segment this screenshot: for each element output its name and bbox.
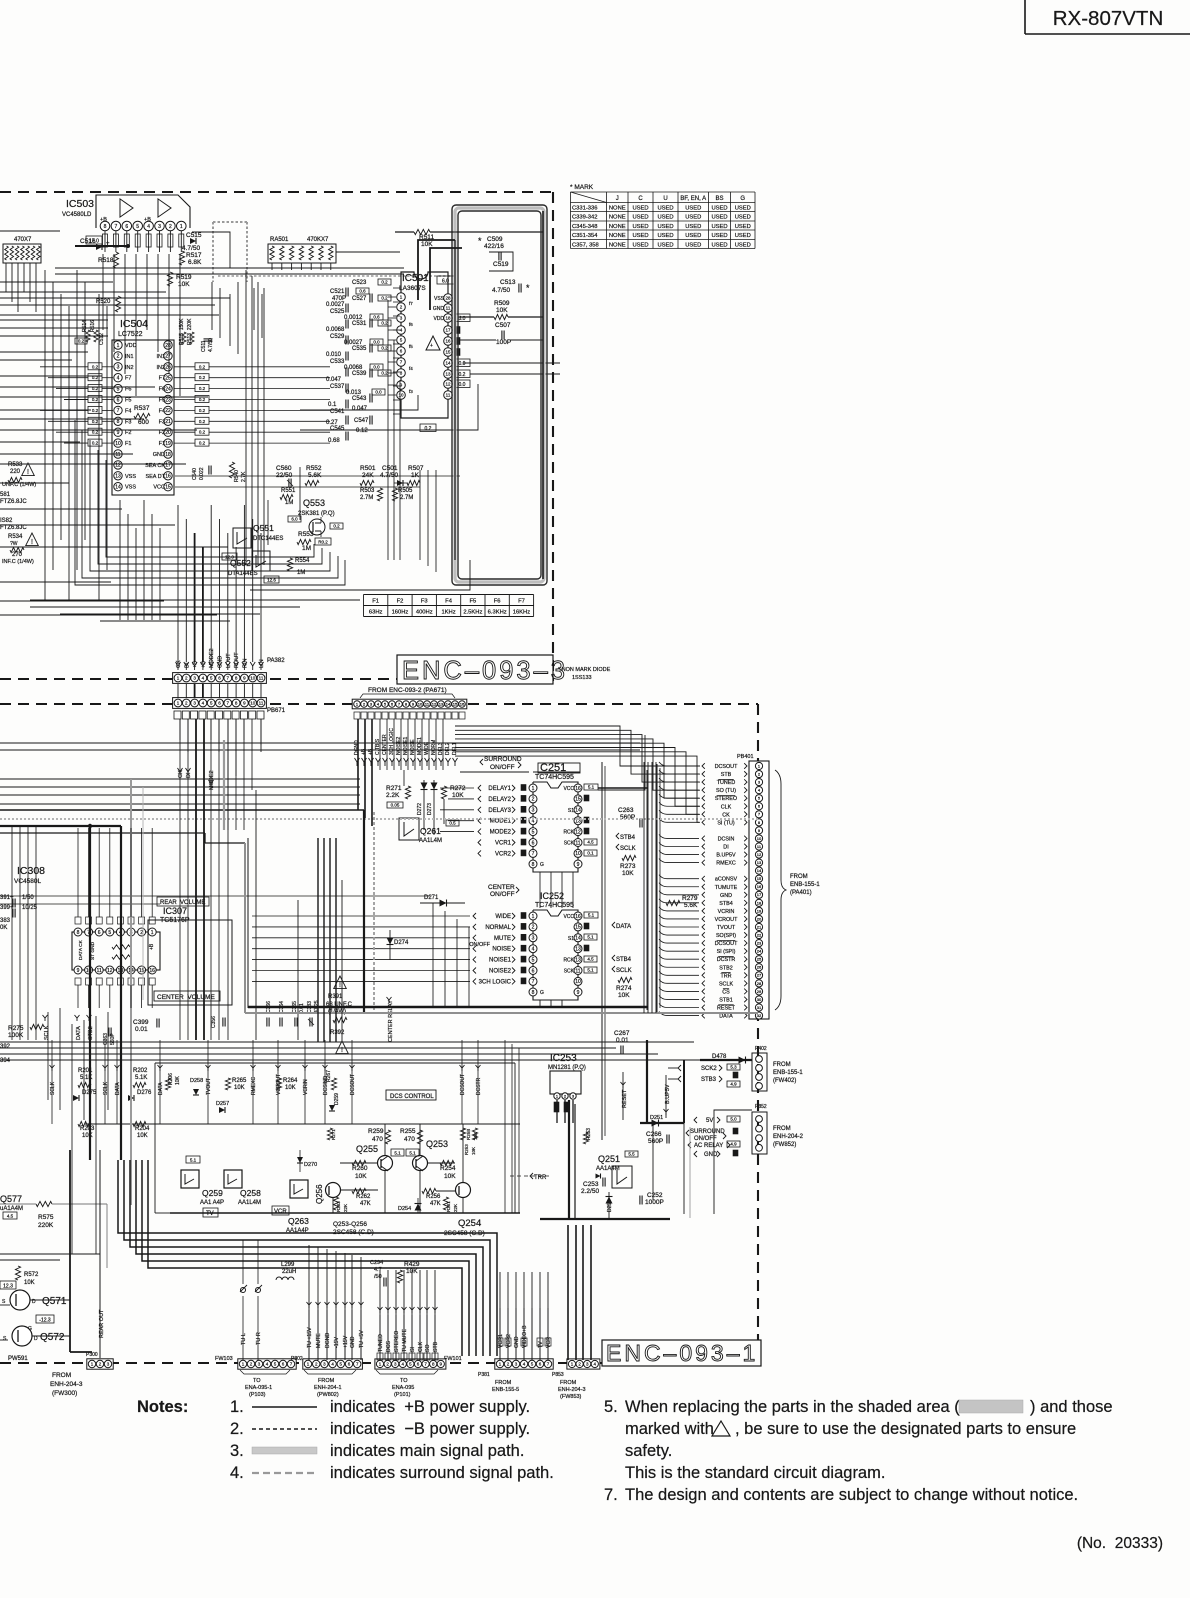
svg-text:R259: R259 bbox=[368, 1128, 384, 1135]
svg-text:10K: 10K bbox=[234, 1085, 245, 1091]
svg-text:13: 13 bbox=[445, 372, 451, 377]
svg-text:5.1: 5.1 bbox=[190, 1158, 197, 1163]
svg-text:13: 13 bbox=[575, 957, 581, 963]
svg-text:C513: C513 bbox=[500, 279, 516, 286]
wires from IC503 bbox=[103, 254, 180, 396]
svg-text:ENC–093–3: ENC–093–3 bbox=[402, 657, 568, 685]
svg-text:6: 6 bbox=[125, 224, 128, 230]
svg-text:Q553: Q553 bbox=[303, 498, 325, 508]
svg-text:24: 24 bbox=[165, 386, 171, 392]
svg-text:581: 581 bbox=[0, 492, 11, 498]
svg-text:DATA: DATA bbox=[76, 1026, 82, 1040]
svg-text:TU L: TU L bbox=[241, 1333, 247, 1345]
svg-text:5.1: 5.1 bbox=[587, 968, 594, 973]
svg-text:DCSIN: DCSIN bbox=[718, 836, 735, 842]
svg-text:0.2: 0.2 bbox=[381, 346, 388, 351]
svg-text:1SS133: 1SS133 bbox=[572, 675, 592, 681]
svg-text:/50: /50 bbox=[374, 1274, 382, 1280]
svg-text:Q258: Q258 bbox=[240, 1188, 261, 1198]
label DATA mid bbox=[612, 922, 631, 930]
svg-text:VSS: VSS bbox=[434, 296, 445, 302]
resistor R265 bbox=[225, 1078, 247, 1091]
capacitor C516 bbox=[80, 238, 110, 250]
DCS area boundary wires bbox=[155, 1063, 515, 1213]
svg-text:R254: R254 bbox=[440, 1165, 456, 1172]
connector PA671 FROM ENC-093-2 bbox=[352, 687, 467, 719]
svg-text:C541: C541 bbox=[330, 409, 345, 415]
op-amp IC503 VC4580LD bbox=[62, 195, 190, 252]
capacitor C513 bbox=[492, 279, 530, 294]
svg-text:RCK: RCK bbox=[563, 830, 574, 836]
svg-text:383: 383 bbox=[0, 918, 11, 924]
svg-text:F3: F3 bbox=[421, 599, 428, 605]
svg-text:C533: C533 bbox=[330, 359, 345, 365]
svg-text:4.: 4. bbox=[230, 1464, 244, 1482]
svg-text:18: 18 bbox=[757, 900, 762, 905]
svg-text:SCLK: SCLK bbox=[719, 981, 733, 987]
svg-text:C511: C511 bbox=[201, 340, 207, 352]
svg-text:R575: R575 bbox=[38, 1214, 54, 1221]
svg-text:PW591: PW591 bbox=[8, 1356, 28, 1362]
svg-text:1K: 1K bbox=[411, 472, 420, 479]
svg-text:This is the standard circuit d: This is the standard circuit diagram. bbox=[625, 1464, 885, 1482]
svg-text:0.2: 0.2 bbox=[199, 408, 206, 413]
svg-text:4.7/50: 4.7/50 bbox=[208, 338, 214, 352]
svg-text:R537: R537 bbox=[134, 405, 150, 412]
svg-text:WIDE: WIDE bbox=[495, 914, 511, 920]
svg-text:+15V: +15V bbox=[343, 1335, 349, 1348]
svg-text:SEA DT: SEA DT bbox=[145, 474, 165, 480]
svg-text:0.2: 0.2 bbox=[381, 371, 388, 376]
label FROM ENB-155-1 PA401 bbox=[775, 770, 820, 1010]
transistor Q255 bbox=[356, 1144, 404, 1171]
svg-text:23: 23 bbox=[757, 941, 762, 946]
thick bus y1007 bbox=[248, 1006, 648, 1008]
svg-text:0.2: 0.2 bbox=[425, 426, 432, 432]
connector FW101 bbox=[375, 1356, 462, 1398]
svg-text:Q572: Q572 bbox=[40, 1332, 65, 1343]
svg-text:-15V: -15V bbox=[334, 1337, 340, 1348]
svg-text:DELAY2: DELAY2 bbox=[488, 797, 511, 803]
wires to bottom connectors bbox=[309, 1225, 591, 1360]
label B.UP5V bbox=[664, 1075, 672, 1118]
svg-text:U: U bbox=[663, 196, 667, 202]
svg-text:22: 22 bbox=[165, 408, 171, 414]
svg-text:0.2: 0.2 bbox=[199, 364, 206, 369]
vertical bundle x318-340 bbox=[318, 838, 342, 1042]
svg-text:R513 220K: R513 220K bbox=[187, 318, 193, 345]
svg-text:R273: R273 bbox=[620, 863, 636, 870]
svg-text:C525: C525 bbox=[330, 309, 345, 315]
svg-text:DCSOUT: DCSOUT bbox=[715, 941, 738, 947]
svg-text:21: 21 bbox=[757, 924, 762, 929]
shaded main signal path border bbox=[452, 205, 547, 585]
resistor R279 bbox=[666, 895, 698, 909]
svg-text:FROM: FROM bbox=[52, 1372, 71, 1379]
diode D273 bbox=[427, 780, 438, 835]
svg-text:ENB-155-1: ENB-155-1 bbox=[773, 1070, 803, 1076]
svg-text:1000P: 1000P bbox=[645, 1199, 664, 1206]
svg-text:C560: C560 bbox=[276, 465, 292, 472]
svg-text:R554: R554 bbox=[295, 558, 310, 564]
svg-text:RCK: RCK bbox=[563, 958, 574, 964]
resistor R204 bbox=[133, 1121, 150, 1139]
label ENC-093-1 bbox=[602, 1340, 761, 1366]
svg-text:STB3: STB3 bbox=[701, 1077, 717, 1083]
svg-text:8: 8 bbox=[104, 224, 107, 230]
label DCS CONTROL bbox=[386, 1090, 436, 1100]
svg-text:FROM ENC-093-2 (PA671): FROM ENC-093-2 (PA671) bbox=[368, 687, 447, 694]
svg-text:C267: C267 bbox=[614, 1030, 630, 1037]
svg-text:8: 8 bbox=[77, 930, 80, 936]
svg-text:392: 392 bbox=[0, 1044, 11, 1050]
svg-text:0.01: 0.01 bbox=[616, 1037, 629, 1044]
svg-text:0.0: 0.0 bbox=[373, 365, 380, 370]
svg-text:100P: 100P bbox=[496, 339, 511, 346]
diode D274 bbox=[387, 930, 410, 960]
extra wires upper left bbox=[0, 282, 262, 360]
svg-text:16KHz: 16KHz bbox=[513, 610, 531, 616]
vertical bus to PB401 bbox=[455, 726, 700, 822]
svg-text:25: 25 bbox=[165, 376, 171, 382]
wires PA671 to IC251 bbox=[380, 719, 443, 786]
svg-text:27: 27 bbox=[757, 973, 762, 978]
horizontal bus y1042-1060 bbox=[0, 1042, 700, 1060]
svg-text:S1: S1 bbox=[568, 936, 574, 942]
svg-text:DATA: DATA bbox=[158, 1082, 164, 1095]
svg-text:0.047: 0.047 bbox=[352, 406, 368, 412]
svg-text:0.2: 0.2 bbox=[199, 430, 206, 435]
svg-text:(No. 20333): (No. 20333) bbox=[1077, 1535, 1163, 1552]
transistor Q577 bbox=[0, 1194, 23, 1219]
svg-text:0.2: 0.2 bbox=[199, 419, 206, 424]
svg-text:C545: C545 bbox=[330, 426, 345, 432]
svg-text:+B: +B bbox=[149, 943, 155, 950]
svg-text:1: 1 bbox=[532, 914, 535, 920]
svg-text:IC252: IC252 bbox=[540, 891, 564, 901]
svg-text:10K: 10K bbox=[444, 1173, 456, 1180]
capacitor C399 bbox=[133, 1019, 159, 1034]
note 4 bbox=[230, 1464, 554, 1482]
svg-text:USED: USED bbox=[711, 243, 727, 249]
transistor Q254 label bbox=[444, 1218, 485, 1237]
svg-text:R256: R256 bbox=[426, 1194, 441, 1200]
resistor R581 bbox=[0, 492, 27, 505]
svg-text:ROUT: ROUT bbox=[234, 652, 240, 668]
svg-text:400Hz: 400Hz bbox=[416, 610, 433, 616]
resistor R203 bbox=[78, 1121, 95, 1139]
svg-text:SCK2: SCK2 bbox=[701, 1066, 717, 1072]
svg-text:NONE: NONE bbox=[609, 206, 626, 212]
upper block dashed border bbox=[0, 192, 553, 681]
svg-text:5.0: 5.0 bbox=[730, 1117, 737, 1122]
svg-text:FROM: FROM bbox=[318, 1378, 335, 1384]
svg-text:FTZ6.8JC: FTZ6.8JC bbox=[0, 525, 27, 531]
svg-text:30: 30 bbox=[757, 997, 762, 1002]
IC IC307 TC5176P bbox=[72, 897, 232, 1005]
svg-text:10K: 10K bbox=[175, 1075, 181, 1085]
connector P802 bbox=[291, 1356, 362, 1398]
svg-text:29: 29 bbox=[757, 989, 762, 994]
svg-text:F4: F4 bbox=[445, 599, 453, 605]
svg-text:SCK: SCK bbox=[564, 841, 575, 847]
svg-text:F3: F3 bbox=[125, 419, 131, 425]
svg-text:14: 14 bbox=[575, 808, 581, 814]
stipple path IC503 bbox=[213, 222, 452, 282]
svg-text:15: 15 bbox=[575, 925, 581, 931]
svg-text:IN2: IN2 bbox=[125, 365, 134, 371]
svg-text:F7: F7 bbox=[518, 599, 525, 605]
svg-text:C523: C523 bbox=[352, 280, 367, 286]
svg-text:C345-348: C345-348 bbox=[572, 224, 597, 230]
svg-text:9: 9 bbox=[577, 862, 580, 868]
svg-text:indicates surround signal path: indicates surround signal path. bbox=[330, 1464, 554, 1482]
svg-text:1KHz: 1KHz bbox=[441, 610, 455, 616]
svg-text:The design and contents are su: The design and contents are subject to c… bbox=[625, 1486, 1078, 1504]
wires around IC501 bbox=[175, 288, 460, 572]
svg-text:F5: F5 bbox=[159, 398, 165, 404]
resistor R509 bbox=[460, 300, 545, 320]
svg-text:47K: 47K bbox=[430, 1201, 441, 1207]
svg-text:safety.: safety. bbox=[625, 1442, 672, 1460]
svg-text:ENH-204-3: ENH-204-3 bbox=[50, 1381, 83, 1388]
capacitor C519 bbox=[489, 252, 513, 271]
label PW591 bbox=[8, 1356, 28, 1362]
svg-text:0.0: 0.0 bbox=[375, 390, 382, 395]
svg-text:D270: D270 bbox=[304, 1162, 317, 1168]
resistor R534 bbox=[2, 533, 38, 565]
svg-text:11: 11 bbox=[115, 452, 120, 458]
svg-text:0.2: 0.2 bbox=[381, 321, 388, 326]
svg-text:RIN: RIN bbox=[242, 659, 248, 669]
nested heavy L-paths bbox=[118, 1160, 497, 1356]
connector P402 bbox=[678, 1046, 803, 1091]
svg-text:FTZ6.8JC: FTZ6.8JC bbox=[0, 499, 27, 505]
svg-text:6.3KHz: 6.3KHz bbox=[488, 610, 507, 616]
svg-text:F1: F1 bbox=[372, 599, 379, 605]
svg-text:10: 10 bbox=[398, 393, 404, 398]
svg-text:F4: F4 bbox=[159, 408, 165, 414]
svg-text:C351-354: C351-354 bbox=[572, 233, 598, 239]
svg-text:R518: R518 bbox=[98, 257, 114, 264]
svg-text:(PW802): (PW802) bbox=[317, 1392, 339, 1398]
svg-text:19: 19 bbox=[757, 908, 762, 913]
svg-text:0.2: 0.2 bbox=[381, 296, 388, 301]
resistor R272 bbox=[441, 785, 466, 824]
diode D259 bbox=[329, 1093, 340, 1111]
svg-text:12.3: 12.3 bbox=[3, 1284, 13, 1290]
svg-text:C527: C527 bbox=[352, 296, 367, 302]
capacitor C501 bbox=[380, 465, 408, 486]
svg-text:2.7M: 2.7M bbox=[360, 495, 373, 501]
svg-text:VCC: VCC bbox=[563, 914, 574, 920]
svg-text:R572: R572 bbox=[24, 1272, 39, 1278]
svg-text:Q255: Q255 bbox=[356, 1144, 378, 1154]
svg-text:DCSOUT: DCSOUT bbox=[460, 1074, 466, 1095]
diode D275 bbox=[73, 1090, 97, 1101]
svg-text:CENTER VOLUME: CENTER VOLUME bbox=[157, 994, 215, 1001]
svg-text:R429: R429 bbox=[404, 1261, 420, 1268]
svg-text:(P101): (P101) bbox=[394, 1392, 411, 1398]
note 1 bbox=[230, 1398, 530, 1416]
bus IC251 right bbox=[460, 735, 648, 790]
svg-text:422/16: 422/16 bbox=[484, 243, 504, 250]
diode D257 bbox=[216, 1101, 229, 1113]
label SCLK upper bbox=[616, 844, 636, 852]
diode D271 bbox=[420, 895, 465, 907]
svg-text:0.2: 0.2 bbox=[199, 386, 206, 391]
PA671 signal labels bbox=[354, 728, 458, 766]
svg-text:24K: 24K bbox=[362, 472, 374, 479]
svg-text:C512: C512 bbox=[99, 333, 105, 345]
svg-text:12: 12 bbox=[432, 701, 437, 706]
svg-text:5: 5 bbox=[108, 930, 111, 936]
svg-text:10K: 10K bbox=[285, 1085, 296, 1091]
svg-text:STB: STB bbox=[433, 1341, 439, 1352]
svg-text:C543: C543 bbox=[352, 396, 367, 402]
svg-text:P852: P852 bbox=[755, 1104, 767, 1110]
svg-text:9: 9 bbox=[117, 430, 120, 436]
svg-text:0.01: 0.01 bbox=[135, 1026, 148, 1033]
capacitor C356 bbox=[211, 1016, 225, 1028]
svg-text:SCLK: SCLK bbox=[50, 1081, 56, 1095]
resistor R551 bbox=[280, 488, 296, 506]
svg-text:VCRIN: VCRIN bbox=[718, 909, 735, 915]
parts usage table bbox=[570, 184, 755, 249]
svg-text:AA1A4M: AA1A4M bbox=[596, 1166, 620, 1172]
svg-text:DELAY1: DELAY1 bbox=[488, 786, 511, 792]
resistor R572 bbox=[15, 1266, 39, 1286]
svg-text:Notes:: Notes: bbox=[137, 1398, 188, 1416]
svg-text:D259: D259 bbox=[334, 1093, 340, 1105]
inductor L299 bbox=[276, 1262, 296, 1280]
svg-text:C252: C252 bbox=[647, 1192, 663, 1199]
wire bus left bottom bbox=[0, 1150, 100, 1352]
svg-text:NONE: NONE bbox=[609, 243, 626, 249]
label Q253-Q256 bbox=[333, 1221, 374, 1236]
svg-text:27: 27 bbox=[165, 354, 171, 360]
svg-text:G: G bbox=[540, 862, 544, 868]
bottom connector signal labels bbox=[240, 1240, 552, 1360]
svg-text:CS: CS bbox=[722, 989, 730, 995]
svg-text:0.0027: 0.0027 bbox=[326, 302, 345, 308]
wires feeding IC252 bbox=[0, 788, 573, 1007]
svg-text:R271: R271 bbox=[386, 785, 402, 792]
svg-text:TRR: TRR bbox=[720, 973, 731, 979]
svg-text:When replacing the parts in th: When replacing the parts in the shaded a… bbox=[625, 1398, 960, 1416]
svg-text:10K: 10K bbox=[24, 1280, 35, 1286]
svg-text:USED: USED bbox=[657, 215, 673, 221]
svg-text:P402: P402 bbox=[755, 1046, 767, 1052]
svg-text:1: 1 bbox=[151, 930, 154, 936]
svg-text:PB401: PB401 bbox=[737, 754, 754, 760]
wires into IC504 bbox=[40, 367, 88, 443]
capacitor C266 bbox=[646, 1131, 669, 1145]
svg-text:DATA: DATA bbox=[719, 1014, 733, 1020]
resistor R261 bbox=[443, 1197, 458, 1212]
svg-text:4.7/50: 4.7/50 bbox=[492, 287, 510, 294]
svg-text:(FW853): (FW853) bbox=[560, 1394, 582, 1400]
svg-text:D257: D257 bbox=[216, 1101, 229, 1107]
connector PB671 bbox=[173, 698, 286, 719]
nested wire loops bbox=[30, 420, 470, 621]
svg-text:USED: USED bbox=[735, 224, 751, 230]
svg-text:11: 11 bbox=[575, 840, 580, 846]
svg-text:F6: F6 bbox=[494, 599, 501, 605]
svg-text:25: 25 bbox=[757, 957, 762, 962]
resistor R520 bbox=[96, 296, 121, 312]
svg-text:0.2: 0.2 bbox=[92, 408, 99, 413]
svg-text:indicates +B power supply.: indicates +B power supply. bbox=[330, 1398, 530, 1416]
resistor R254 bbox=[440, 1160, 456, 1180]
svg-text:2: 2 bbox=[532, 797, 535, 803]
svg-text:DCS: DCS bbox=[386, 1341, 392, 1352]
svg-text:22: 22 bbox=[757, 932, 762, 937]
lower block dashed border bbox=[0, 704, 758, 1363]
DCS cell rails bbox=[85, 1124, 520, 1213]
svg-text:5V: 5V bbox=[706, 1118, 713, 1124]
svg-text:USED: USED bbox=[632, 215, 648, 221]
label TRR right bbox=[510, 1173, 550, 1181]
svg-text:VDD: VDD bbox=[125, 343, 137, 349]
svg-text:R279: R279 bbox=[682, 895, 698, 902]
svg-text:SURROUND: SURROUND bbox=[484, 756, 522, 763]
svg-text:R392: R392 bbox=[330, 1030, 345, 1036]
svg-text:1: 1 bbox=[117, 343, 120, 349]
svg-text:!: ! bbox=[31, 539, 33, 546]
svg-text:4.9: 4.9 bbox=[730, 1082, 737, 1087]
svg-text:R553: R553 bbox=[298, 531, 314, 538]
svg-text:RESET: RESET bbox=[717, 1006, 736, 1012]
svg-text:12: 12 bbox=[107, 968, 113, 974]
resistor R271 bbox=[386, 785, 411, 808]
svg-text:NOISE1: NOISE1 bbox=[489, 958, 512, 964]
svg-text:ENB-155-5: ENB-155-5 bbox=[492, 1387, 519, 1393]
svg-text:C515: C515 bbox=[186, 232, 202, 239]
svg-text:GND: GND bbox=[720, 893, 732, 899]
IC IC251 TC74HC595 bbox=[478, 762, 598, 872]
svg-text:15: 15 bbox=[757, 876, 762, 881]
PB401 vertical bus bbox=[644, 762, 656, 1013]
svg-text:16: 16 bbox=[575, 914, 581, 920]
horizontal bus lines lower left bbox=[0, 743, 640, 1160]
svg-text:S1: S1 bbox=[568, 808, 574, 814]
svg-text:RMEXC: RMEXC bbox=[251, 1077, 257, 1095]
svg-text:63Hz: 63Hz bbox=[369, 610, 383, 616]
svg-text:Q261: Q261 bbox=[420, 826, 441, 836]
resistor R503 bbox=[360, 488, 383, 501]
svg-text:USED: USED bbox=[632, 243, 648, 249]
resistor R553 bbox=[297, 531, 331, 552]
svg-text:) and those: ) and those bbox=[1030, 1398, 1113, 1416]
svg-text:13: 13 bbox=[115, 474, 121, 480]
svg-text:USED: USED bbox=[685, 233, 701, 239]
svg-text:SI (TU): SI (TU) bbox=[717, 820, 735, 826]
svg-text:20: 20 bbox=[757, 916, 762, 921]
transistor Q551 bbox=[222, 523, 283, 560]
svg-text:12: 12 bbox=[445, 382, 451, 387]
svg-text:SI: SI bbox=[410, 1347, 416, 1352]
resistor R256 bbox=[422, 1188, 441, 1207]
left annotations mid bbox=[0, 895, 38, 1064]
diode D270 bbox=[297, 1150, 317, 1172]
svg-text:0.2: 0.2 bbox=[459, 372, 466, 378]
svg-text:23: 23 bbox=[165, 397, 171, 403]
resistor R582 bbox=[0, 518, 27, 531]
svg-text:22uH: 22uH bbox=[282, 1269, 296, 1275]
resistor R206 bbox=[165, 1073, 181, 1090]
svg-text:8: 8 bbox=[532, 862, 535, 868]
